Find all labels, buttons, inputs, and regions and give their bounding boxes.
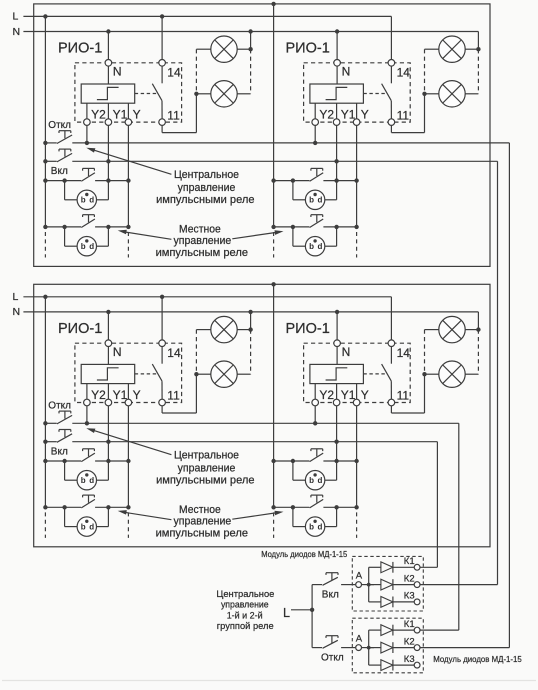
svg-text:К3: К3	[404, 654, 415, 665]
wire: Y drop (B1)	[127, 406, 129, 508]
wire: module1 K1 to group2 Вкл riser	[420, 566, 437, 568]
svg-text:L: L	[13, 291, 19, 303]
scan artifact line	[2, 680, 536, 682]
terminal 14 (B2)	[388, 340, 395, 347]
wire: coil stub Y2 (A2)	[314, 103, 316, 119]
diode VD2 (#2)	[369, 647, 381, 649]
wire: Y2 drop to Откл row (A2)	[314, 125, 316, 142]
svg-text:Y1: Y1	[113, 388, 128, 402]
wire: lamp HL1 left lead (B1)	[196, 329, 210, 331]
wire: N terminal to coil (B1)	[107, 347, 109, 365]
wire: lamp HL1 right lead (A1)	[237, 48, 250, 50]
svg-text:Y2: Y2	[319, 108, 334, 122]
coil hysteresis symbol (B1)	[97, 368, 119, 380]
wire: coil stub Y (A2)	[356, 103, 358, 119]
svg-text:Y2: Y2	[319, 388, 334, 402]
wire: local row (A2 on)	[274, 180, 310, 182]
wall pushbutton symbol (A2 on)	[305, 190, 324, 209]
wire: lamp rail down (B1)	[195, 374, 197, 413]
svg-text:d: d	[89, 476, 94, 485]
wire: L rail dashed continuation (A2)	[273, 232, 275, 258]
terminal Y (A1)	[125, 119, 132, 126]
node: frame tap for local rail of unit A2	[271, 2, 275, 6]
wire: button branch right (A2 on)	[325, 199, 337, 201]
terminal 11 (B1)	[159, 399, 166, 406]
wire: coil stub Y1 (B2)	[336, 384, 338, 400]
wire: Y2 drop to Откл row (A1)	[86, 125, 88, 142]
wire: lamp HL2 left lead (A1)	[196, 93, 210, 95]
terminal 11 (A1)	[159, 119, 166, 126]
wire: coil stub Y2 (A1)	[86, 103, 88, 119]
svg-text:14: 14	[397, 346, 411, 360]
svg-text:РИО-1: РИО-1	[286, 321, 330, 337]
relay unit dashed enclosure (B2)	[304, 343, 411, 402]
svg-text:управление: управление	[174, 516, 232, 528]
wire: 14 terminal to L bus (A2)	[390, 16, 392, 59]
wire: dashed lamp left rail (A1)	[195, 49, 197, 94]
svg-text:Модуль диодов МД-1-15: Модуль диодов МД-1-15	[261, 549, 347, 559]
relay coil K (A2)	[310, 84, 364, 103]
pushbutton central Вкл (B)	[57, 434, 72, 443]
wire: N bus down to lamp group (B2)	[477, 312, 479, 330]
svg-text:импульсными реле: импульсными реле	[156, 475, 254, 487]
node: anode bus (#2)	[362, 647, 375, 649]
terminal N (B2)	[334, 340, 341, 347]
wire: dashed lamp right rail (B1)	[250, 330, 252, 375]
pushbutton S (B2 off)	[310, 499, 324, 508]
pushbutton central Откл (A)	[57, 135, 72, 144]
wire: lamp HL2 left lead (B1)	[196, 373, 210, 375]
terminal N (A1)	[105, 60, 112, 67]
svg-text:управление: управление	[178, 462, 236, 474]
terminal Y1 (B1)	[105, 399, 112, 406]
wire: lamp HL1 right lead (B1)	[237, 329, 250, 331]
wire: N terminal to N bus (B1)	[107, 312, 109, 340]
wire: module1 K2 to group1 Вкл riser	[420, 584, 498, 586]
wire: coil stub Y1 (A2)	[336, 103, 338, 119]
relay contact 14-11 (A1)	[161, 66, 163, 83]
terminal K3 (#1)	[414, 599, 420, 605]
pushbutton S (A1 off)	[81, 219, 95, 228]
relay unit dashed enclosure (B1)	[75, 343, 182, 402]
svg-text:Местное: Местное	[179, 223, 221, 235]
svg-text:управление: управление	[178, 182, 236, 194]
wire: coil stub Y2 (B2)	[314, 384, 316, 400]
relay coil K (B2)	[310, 364, 364, 383]
svg-text:N: N	[113, 345, 122, 359]
wire: central Вкл row (B)	[45, 441, 56, 443]
svg-text:управление: управление	[221, 600, 269, 610]
terminal 14 (A2)	[388, 60, 395, 67]
wire: N terminal to N bus (A1)	[107, 32, 109, 60]
wire: lamp HL2 right lead (A1)	[237, 93, 250, 95]
diode VD1 (#1)	[369, 566, 381, 568]
svg-text:b: b	[81, 476, 86, 485]
wire: lamp HL2 left lead (A2)	[425, 93, 439, 95]
lamp HL2 (B2)	[439, 361, 465, 387]
pushbutton S (B1 off)	[81, 499, 95, 508]
wire: local row (B2 on)	[274, 460, 310, 462]
wire: lamp HL1 right lead (A2)	[465, 48, 478, 50]
wall pushbutton symbol (B2 on)	[305, 471, 324, 490]
diode VD2 (#1)	[369, 584, 381, 586]
lamp HL2 (A2)	[439, 81, 465, 107]
pushbutton central Вкл (A)	[57, 153, 72, 162]
wire: lamp HL1 left lead (B2)	[425, 329, 439, 331]
svg-text:Вкл: Вкл	[322, 590, 339, 601]
lamp HL1 (B1)	[211, 316, 237, 342]
wire: L bus (A)	[23, 15, 391, 17]
wire: Y1 drop (A2)	[336, 125, 338, 199]
svg-text:Центральное: Центральное	[174, 449, 239, 461]
svg-text:11: 11	[167, 389, 180, 403]
svg-text:Центральное: Центральное	[216, 589, 274, 599]
wire: Y1 drop (A1)	[107, 125, 109, 199]
svg-text:N: N	[342, 345, 351, 359]
wire: L rail (B1)	[44, 297, 46, 508]
svg-text:b: b	[81, 242, 86, 251]
svg-text:14: 14	[167, 346, 181, 360]
wire: riser central Вкл group1 to diode module 1 K2	[497, 161, 499, 584]
svg-text:РИО-1: РИО-1	[58, 321, 102, 337]
svg-text:11: 11	[397, 389, 410, 403]
wire: dashed lamp left rail (A2)	[424, 49, 426, 94]
wire: riser central Откл group1 to diode module 2 K2	[508, 143, 510, 648]
relay unit dashed enclosure (A1)	[75, 63, 182, 122]
node: anode bus (#1)	[362, 584, 375, 586]
wire: Y drop (B2)	[356, 406, 358, 508]
svg-text:импульсными реле: импульсными реле	[156, 194, 254, 206]
wire: module2 K1 to group2 Откл riser	[420, 629, 459, 631]
wire: coil stub Y1 (B1)	[107, 384, 109, 400]
wire: N terminal to coil (B2)	[336, 347, 338, 365]
wire: lamp HL1 left lead (A2)	[425, 48, 439, 50]
wire: Y drop (A1)	[127, 125, 129, 226]
wire: coil stub Y (B2)	[356, 384, 358, 400]
arrow: local control note right (A)	[232, 232, 279, 239]
terminal Y (A2)	[353, 119, 360, 126]
terminal N (A2)	[334, 60, 341, 67]
svg-text:А: А	[356, 570, 363, 581]
wire: central Вкл row (A)	[45, 160, 56, 162]
wire: Y dashed continuation (B1)	[127, 512, 129, 538]
wire: N terminal to coil (A1)	[107, 66, 109, 84]
wire: button branch left (B2 off)	[292, 507, 294, 526]
wire: 14 terminal to L bus (B2)	[390, 297, 392, 340]
wire: coil stub Y (A1)	[127, 103, 129, 119]
relay unit dashed enclosure (A2)	[304, 63, 411, 122]
terminal Y1 (A2)	[333, 119, 340, 126]
terminal 14 (B1)	[159, 340, 166, 347]
wire: button branch right (B1 off)	[97, 526, 109, 528]
wire: Y dashed continuation (A1)	[127, 232, 129, 258]
lamp HL1 (A2)	[439, 36, 465, 62]
coil hysteresis symbol (B2)	[326, 368, 348, 380]
svg-text:Y2: Y2	[91, 388, 106, 402]
wall pushbutton symbol (B1 on)	[77, 471, 96, 490]
svg-text:Y: Y	[361, 388, 369, 402]
diode VD3 (#1)	[369, 601, 381, 603]
wire: dashed lamp left rail (B2)	[424, 330, 426, 375]
module dashed enclosure (#2)	[352, 618, 423, 673]
svg-text:Y1: Y1	[341, 388, 356, 402]
svg-text:d: d	[318, 196, 323, 205]
wire: lamp HL1 right lead (B2)	[465, 329, 478, 331]
wire: Y1 rail to second local button (A1)	[107, 227, 109, 246]
terminal Y2 (B1)	[84, 399, 91, 406]
wall pushbutton symbol (B2 off)	[305, 517, 324, 536]
wire: N bus (A)	[23, 31, 478, 33]
arrow: central control note (B)	[93, 430, 172, 455]
wire: N bus down to lamp group (B1)	[250, 312, 252, 330]
wire: local row (A2 off)	[274, 226, 310, 228]
wire: L rail (A1)	[44, 16, 46, 227]
svg-text:управление: управление	[174, 235, 232, 247]
wire: button branch right (A1 off)	[97, 245, 109, 247]
wire: local row (A1 on)	[45, 180, 81, 182]
svg-text:14: 14	[397, 65, 411, 79]
diode VD1 (#2)	[369, 629, 381, 631]
wire: N terminal to N bus (A2)	[336, 32, 338, 60]
wire: 14 terminal to L bus (B1)	[161, 297, 163, 340]
lamp HL1 (A1)	[211, 36, 237, 62]
wire: dashed lamp right rail (B2)	[477, 330, 479, 375]
pushbutton Вкл (both groups on)	[312, 584, 322, 586]
wire: button branch left (A1 off)	[64, 227, 66, 246]
mechanical link coil to contact (B1)	[135, 373, 158, 375]
svg-text:b: b	[309, 522, 314, 531]
svg-text:d: d	[318, 476, 323, 485]
terminal Y2 (B2)	[312, 399, 319, 406]
wire: riser central Вкл group2 to diode module 1 K1	[436, 442, 438, 568]
wire: Y1 drop (B2)	[336, 406, 338, 480]
terminal Y (B1)	[125, 399, 132, 406]
wire: N bus down to lamp group (A2)	[477, 32, 479, 50]
pushbutton S (A2 on)	[310, 173, 324, 182]
wire: coil stub Y2 (B1)	[86, 384, 88, 400]
svg-text:14: 14	[167, 65, 181, 79]
svg-text:Местное: Местное	[179, 504, 221, 516]
wire: local row (A1 off)	[45, 226, 81, 228]
wall pushbutton symbol (A1 on)	[77, 190, 96, 209]
terminal 11 (A2)	[388, 119, 395, 126]
svg-text:импульсным реле: импульсным реле	[156, 247, 248, 259]
terminal N (B1)	[105, 340, 112, 347]
svg-text:d: d	[89, 196, 94, 205]
wire: local L rail from frame (B2)	[273, 284, 275, 507]
wire: coil stub Y1 (A1)	[107, 103, 109, 119]
wire: lamp HL2 right lead (B1)	[237, 373, 250, 375]
terminal 11 (B2)	[388, 399, 395, 406]
wire: central Откл row (B)	[45, 422, 56, 424]
wire: dashed lamp left rail (B1)	[195, 330, 197, 375]
wire: button branch left (A2 on)	[292, 181, 294, 200]
svg-text:К1: К1	[404, 619, 415, 630]
wire: Y1 rail to second local button (A2)	[336, 227, 338, 246]
svg-text:L: L	[13, 11, 19, 23]
svg-text:Y1: Y1	[341, 108, 356, 122]
diode VD3 (#2)	[369, 664, 381, 666]
wire: local row (B1 on)	[45, 460, 81, 462]
svg-text:К3: К3	[404, 591, 415, 602]
wire: button branch left (A2 off)	[292, 227, 294, 246]
wire: L feed to group switches	[291, 609, 312, 611]
pushbutton S (A2 off)	[310, 219, 324, 228]
wire: Y1 rail to second local button (B1)	[107, 507, 109, 526]
svg-text:Центральное: Центральное	[174, 169, 239, 181]
wire: Y dashed continuation (A2)	[356, 232, 358, 258]
pushbutton S (B1 on)	[81, 453, 95, 462]
relay contact 14-11 (B1)	[161, 347, 163, 364]
svg-text:Откл: Откл	[48, 120, 71, 131]
wall pushbutton symbol (A1 off)	[77, 237, 96, 256]
wire: Y2 drop to Откл row (B2)	[314, 406, 316, 424]
wire: N bus down to lamp group (A1)	[250, 32, 252, 50]
wire: button branch right (B2 on)	[325, 479, 337, 481]
pushbutton S (A1 on)	[81, 173, 95, 182]
mechanical link coil to contact (A2)	[363, 93, 386, 95]
wire: 14 terminal to L bus (A1)	[161, 16, 163, 59]
wire: local row (B1 off)	[45, 506, 81, 508]
svg-text:Y1: Y1	[113, 108, 128, 122]
terminal Y2 (A1)	[84, 119, 91, 126]
mechanical link coil to contact (B2)	[363, 373, 386, 375]
wire: lamp HL2 right lead (B2)	[465, 373, 478, 375]
svg-text:А: А	[356, 633, 363, 644]
pushbutton Откл (both groups off)	[312, 647, 322, 649]
module dashed enclosure (#1)	[352, 556, 423, 611]
svg-text:b: b	[81, 522, 86, 531]
wire: L bus (B)	[23, 296, 391, 298]
wire: Вкл switch to module 1 A	[341, 584, 355, 586]
node: frame tap for local rail of unit B2	[271, 282, 275, 286]
terminal K2 (#2)	[414, 645, 420, 651]
svg-text:группой реле: группой реле	[217, 621, 274, 631]
svg-text:импульсным реле: импульсным реле	[156, 528, 248, 540]
svg-text:К2: К2	[404, 573, 415, 584]
coil hysteresis symbol (A2)	[326, 87, 348, 99]
svg-text:N: N	[342, 64, 351, 78]
svg-text:11: 11	[167, 108, 180, 122]
arrow: local control note left (B)	[123, 512, 172, 520]
svg-text:Y2: Y2	[91, 108, 106, 122]
wire: lamp rail down (A1)	[195, 94, 197, 133]
terminal Y2 (A2)	[312, 119, 319, 126]
terminal K2 (#1)	[414, 582, 420, 588]
arrow: local control note left (A)	[123, 232, 172, 240]
wire: anode bus vertical (#2)	[368, 630, 370, 665]
svg-text:b: b	[309, 476, 314, 485]
wire: terminal 11 to lamp rail (B1)	[161, 406, 163, 413]
wire: button branch left (A1 on)	[64, 181, 66, 200]
wire: lamp HL2 right lead (A2)	[465, 93, 478, 95]
pushbutton central Откл (B)	[57, 415, 72, 424]
svg-text:b: b	[309, 196, 314, 205]
wall pushbutton symbol (A2 off)	[305, 237, 324, 256]
terminal 14 (A1)	[159, 60, 166, 67]
svg-text:1-й и 2-й: 1-й и 2-й	[227, 610, 263, 620]
wire: Y1 drop (B1)	[107, 406, 109, 480]
wire: N terminal to coil (A2)	[336, 66, 338, 84]
wire: terminal 11 to lamp rail (A2)	[390, 125, 392, 132]
mechanical link coil to contact (A1)	[135, 93, 158, 95]
svg-text:Y: Y	[361, 108, 369, 122]
wire: terminal 11 to lamp rail (B2)	[390, 406, 392, 413]
terminal K1 (#2)	[414, 627, 420, 633]
arrow: central control note (A)	[93, 150, 172, 175]
svg-text:РИО-1: РИО-1	[286, 41, 330, 57]
svg-text:d: d	[89, 242, 94, 251]
wire: riser central Откл group2 to diode module 2 K1	[458, 423, 460, 630]
svg-text:b: b	[81, 196, 86, 205]
wire: dashed lamp right rail (A1)	[250, 49, 252, 94]
relay contact 14-11 (B2)	[390, 347, 392, 364]
wire: button branch right (A2 off)	[325, 245, 337, 247]
wire: button branch right (B1 on)	[97, 479, 109, 481]
relay coil K (A1)	[81, 84, 135, 103]
terminal K1 (#1)	[414, 564, 420, 570]
svg-text:d: d	[318, 242, 323, 251]
lamp HL2 (B1)	[211, 361, 237, 387]
wire: L rail dashed continuation (B1)	[44, 512, 46, 538]
svg-text:d: d	[89, 522, 94, 531]
wire: terminal 11 to lamp rail (A1)	[161, 125, 163, 132]
svg-text:d: d	[318, 522, 323, 531]
wire: lamp rail down (B2)	[424, 374, 426, 413]
wire: button branch left (B1 on)	[64, 461, 66, 480]
svg-text:b: b	[309, 242, 314, 251]
lamp HL2 (A1)	[211, 81, 237, 107]
wire: module2 K2 to group1 Откл riser	[420, 647, 509, 649]
wire: Y dashed continuation (B2)	[356, 512, 358, 538]
terminal A (#2)	[356, 645, 362, 651]
svg-text:Y: Y	[133, 388, 141, 402]
wire: Откл switch to module 2 A	[341, 647, 355, 649]
relay coil K (B1)	[81, 364, 135, 383]
wire: local row (B2 off)	[274, 506, 310, 508]
svg-text:Y: Y	[133, 108, 141, 122]
wire: local L rail from frame (A2)	[273, 4, 275, 227]
wire: N terminal to N bus (B2)	[336, 312, 338, 340]
svg-text:РИО-1: РИО-1	[58, 41, 102, 57]
wire: button branch right (A1 on)	[97, 199, 109, 201]
terminal K3 (#2)	[414, 662, 420, 668]
svg-text:К1: К1	[404, 556, 415, 567]
lamp HL1 (B2)	[439, 316, 465, 342]
svg-text:L: L	[283, 606, 290, 620]
terminal Y (B2)	[353, 399, 360, 406]
wire: anode bus vertical (#1)	[368, 567, 370, 602]
wire: Y2 drop to Откл row (B1)	[86, 406, 88, 424]
wire: coil stub Y (B1)	[127, 384, 129, 400]
coil hysteresis symbol (A1)	[97, 87, 119, 99]
svg-text:Откл: Откл	[321, 652, 344, 663]
wire: Y1 rail to second local button (B2)	[336, 507, 338, 526]
svg-text:Модуль диодов МД-1-15: Модуль диодов МД-1-15	[433, 654, 522, 664]
pushbutton S (B2 on)	[310, 453, 324, 462]
wire: N bus (B)	[23, 311, 478, 313]
svg-text:Вкл: Вкл	[51, 446, 68, 457]
wire: lamp rail down (A2)	[424, 94, 426, 133]
svg-text:К2: К2	[404, 636, 415, 647]
wire: button branch right (B2 off)	[325, 526, 337, 528]
wall pushbutton symbol (B1 off)	[77, 517, 96, 536]
terminal Y1 (B2)	[333, 399, 340, 406]
wire: lamp HL2 left lead (B2)	[425, 373, 439, 375]
svg-text:Откл: Откл	[48, 400, 71, 411]
wire: L rail dashed continuation (A1)	[44, 232, 46, 258]
svg-text:Вкл: Вкл	[51, 166, 68, 177]
